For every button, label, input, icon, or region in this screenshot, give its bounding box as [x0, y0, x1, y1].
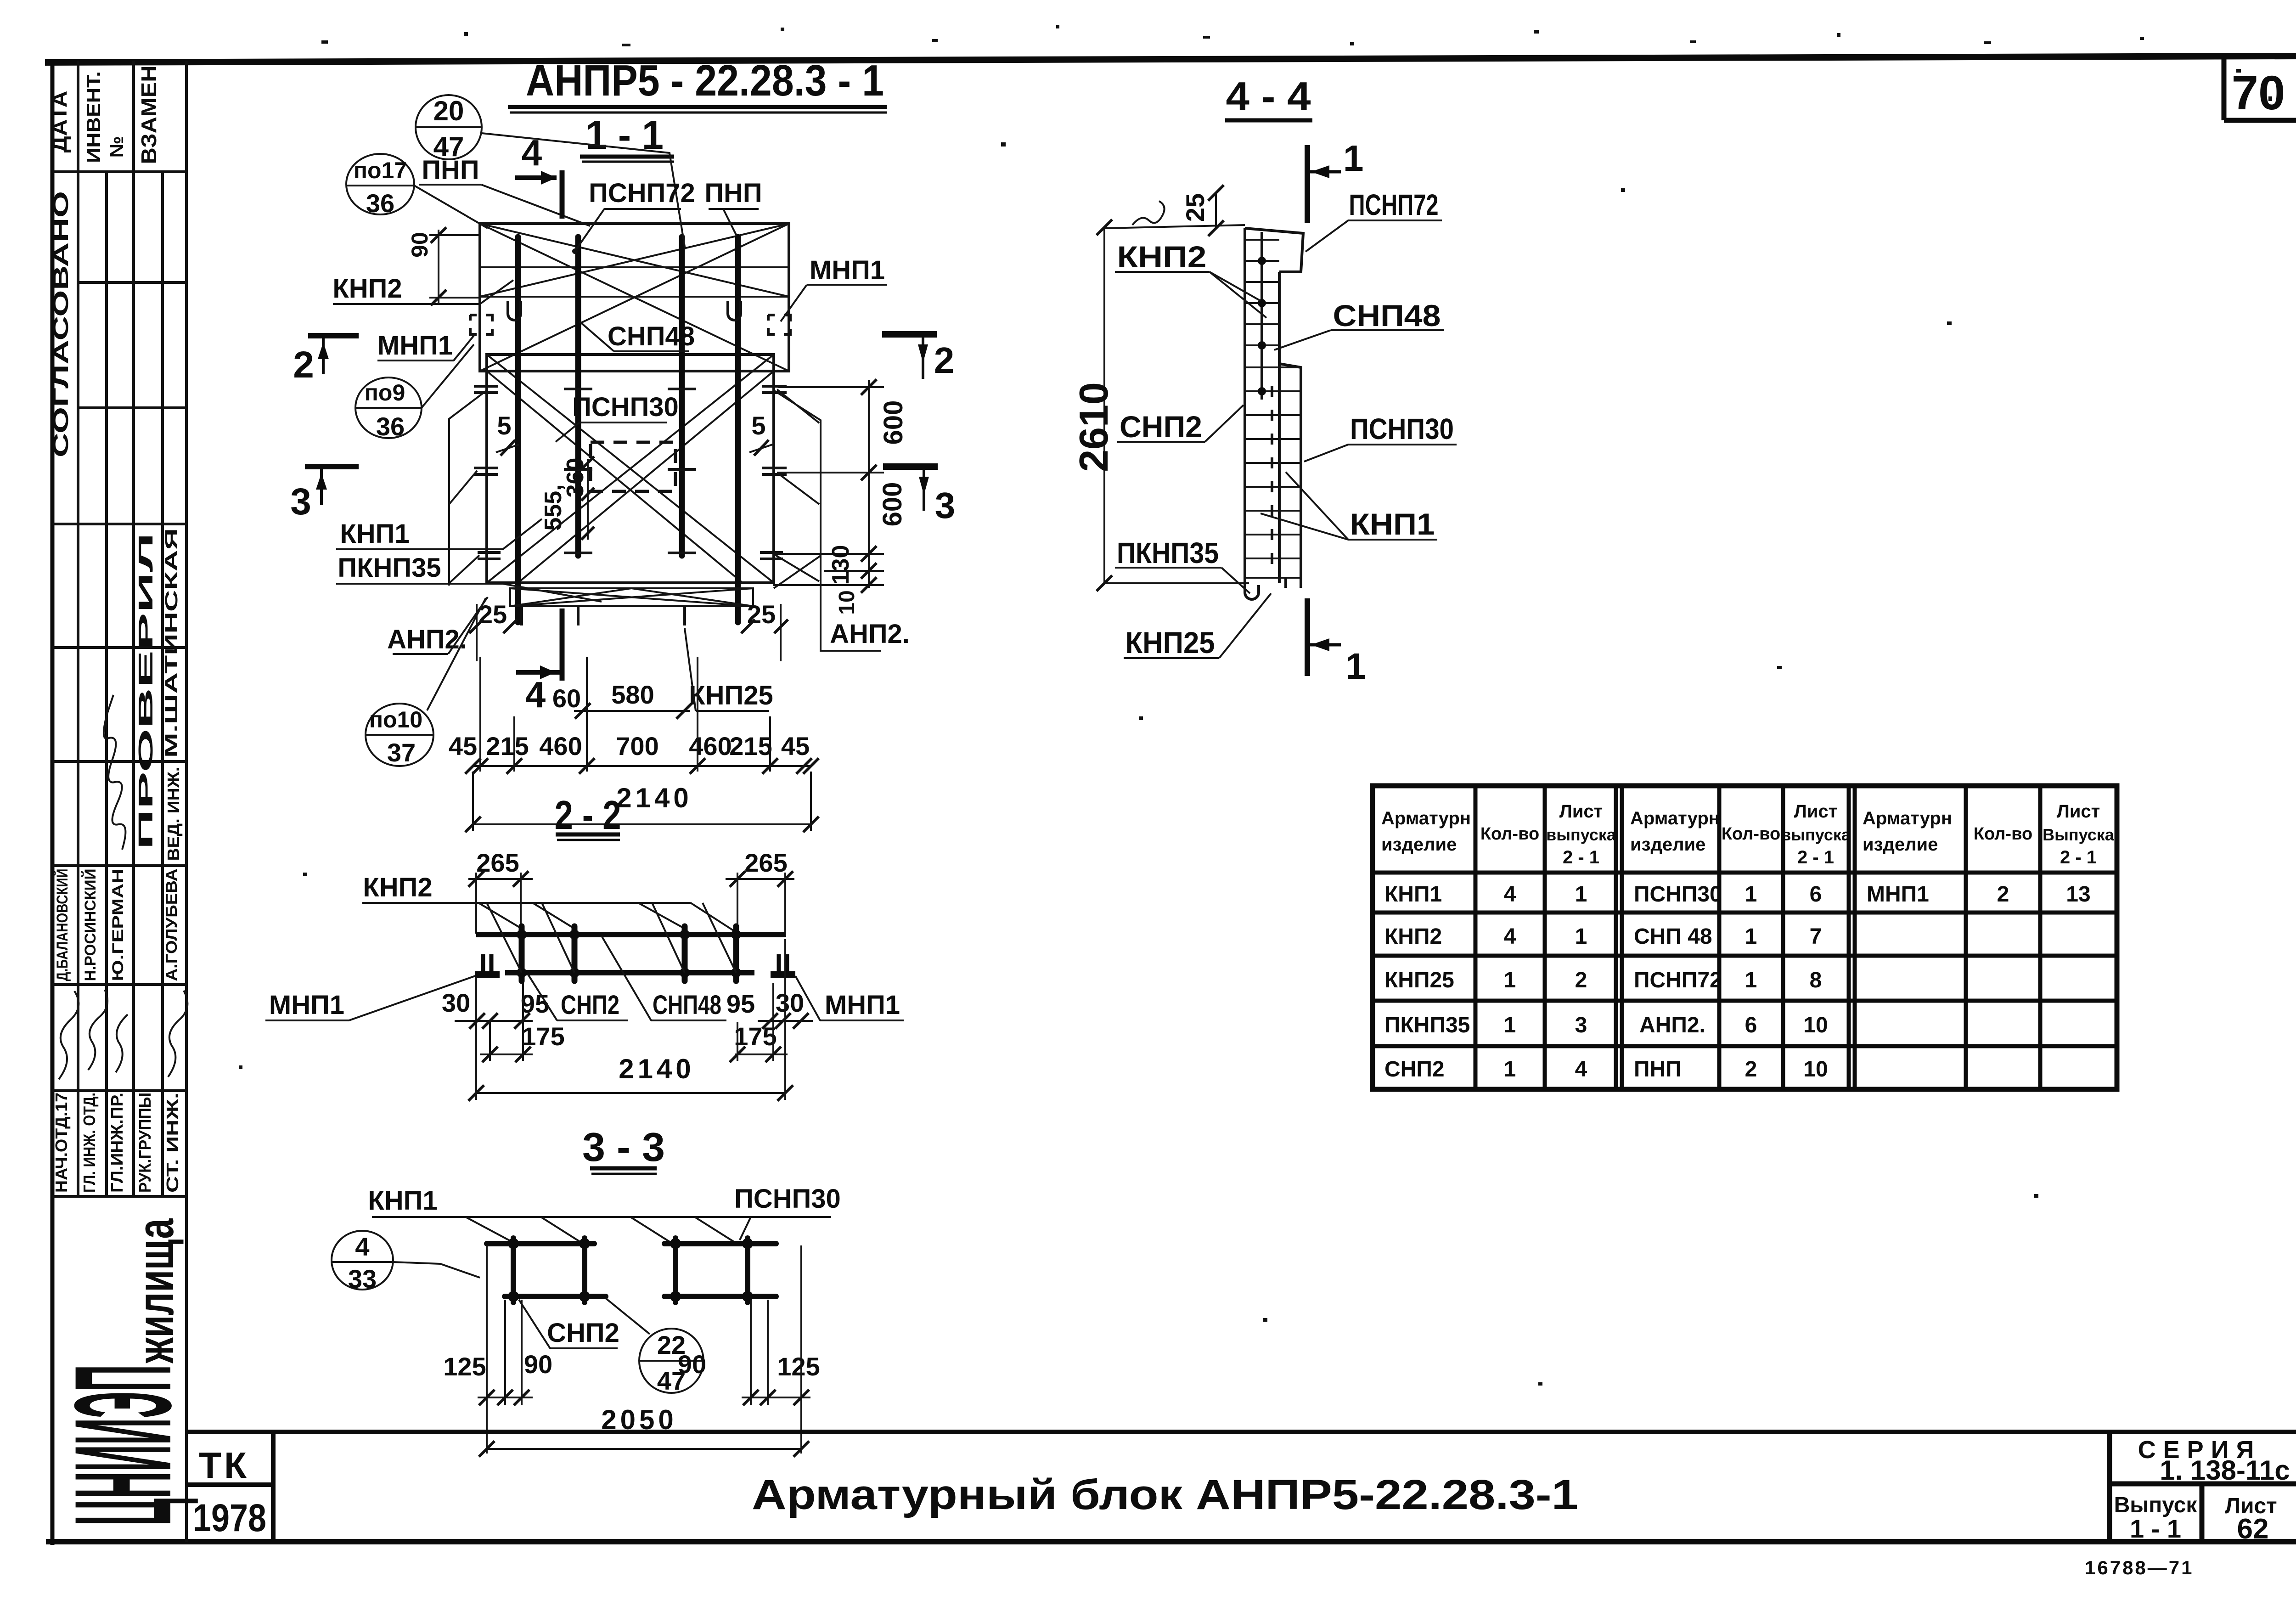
section mark 2 right: [882, 334, 954, 381]
2-2 dim 265 right: [726, 848, 794, 937]
svg-text:2: 2: [1575, 968, 1587, 992]
svg-text:ИНВЕНТ.: ИНВЕНТ.: [83, 71, 104, 163]
svg-text:360: 360: [562, 458, 589, 498]
svg-text:АНП2.: АНП2.: [1639, 1013, 1705, 1037]
svg-text:СНП2: СНП2: [561, 990, 619, 1020]
svg-text:1. 138-11с: 1. 138-11с: [2160, 1455, 2290, 1486]
2-2 studs: [522, 926, 736, 981]
view 1-1 left wing outline: [449, 390, 487, 586]
svg-text:ВЗАМЕН: ВЗАМЕН: [137, 66, 161, 164]
svg-text:АНПР5 - 22.28.3 - 1: АНПР5 - 22.28.3 - 1: [526, 56, 884, 105]
svg-text:90: 90: [678, 1350, 706, 1379]
4-4 ladder rungs lower: [1245, 367, 1301, 578]
svg-text:СНП2: СНП2: [547, 1318, 619, 1348]
4-4 squiggle: [1132, 201, 1165, 225]
dim 5 left: [496, 411, 519, 456]
svg-text:изделие: изделие: [1863, 834, 1938, 855]
view 1-1 left bar-end marks: [474, 386, 501, 559]
svg-text:по10: по10: [369, 707, 422, 732]
label ПНП top-left: [419, 155, 590, 226]
svg-text:2610: 2610: [1071, 382, 1116, 472]
label ПСНП72: [572, 178, 695, 254]
svg-text:2: 2: [934, 340, 955, 381]
callout 20/47: [416, 95, 685, 249]
view 1-1 lower diagonals: [487, 355, 774, 583]
label КНП25: [685, 628, 773, 711]
dim row 45/215/460/700/460/215/45: [449, 657, 819, 774]
2-2 label МНП1 left: [265, 976, 475, 1020]
4-4 bottom hook: [1245, 583, 1259, 599]
svg-text:45: 45: [449, 732, 477, 761]
sidebar signature 5: [168, 991, 187, 1077]
label КНП2: [332, 274, 513, 304]
svg-text:125: 125: [443, 1352, 486, 1381]
svg-text:КНП25: КНП25: [1384, 968, 1454, 992]
svg-text:1: 1: [1575, 882, 1587, 907]
svg-text:МНП1: МНП1: [269, 990, 344, 1020]
svg-text:460: 460: [689, 732, 732, 761]
page number box 70: [2224, 57, 2296, 120]
svg-text:ПКНП35: ПКНП35: [338, 553, 441, 583]
svg-text:215: 215: [729, 732, 772, 761]
2-2 hatch diagonals: [487, 903, 736, 973]
svg-text:4: 4: [525, 674, 546, 715]
svg-text:ПСНП72: ПСНП72: [1349, 188, 1439, 221]
svg-text:33: 33: [348, 1264, 377, 1293]
svg-text:Арматурн: Арматурн: [1630, 808, 1720, 828]
label МНП1 left: [377, 331, 475, 361]
3-3 callout 22/47: [606, 1298, 703, 1395]
view 1-1 right hook U: [728, 301, 741, 320]
dim 90 top-left: [407, 227, 481, 305]
view 1-1 lower rect: [487, 355, 774, 583]
dim 25 right: [741, 600, 788, 661]
svg-text:СНП48: СНП48: [653, 990, 721, 1020]
svg-text:10: 10: [1803, 1057, 1828, 1082]
svg-text:МНП1: МНП1: [1867, 882, 1929, 907]
spec table rows group3: [1867, 882, 2091, 907]
svg-text:Н.РОСИНСКИЙ: Н.РОСИНСКИЙ: [81, 869, 99, 981]
4-4 panel verticals: [1244, 228, 1246, 583]
svg-text:Д.БАЛАНОВСКИЙ: Д.БАЛАНОВСКИЙ: [53, 869, 71, 981]
4-4 label СНП48: [1274, 299, 1444, 350]
svg-text:1: 1: [1345, 646, 1366, 687]
sidebar signature 2: [88, 990, 107, 1070]
dim 555,360: [540, 456, 594, 540]
bottom title bar top line: [186, 1430, 2296, 1434]
spec table headers group1: [1381, 801, 1616, 868]
sidebar grid verticals: [78, 61, 186, 1542]
svg-text:АНП2.: АНП2.: [830, 619, 910, 649]
label АНП2. left: [387, 597, 488, 654]
svg-text:1: 1: [1745, 924, 1757, 949]
dim 5 right: [749, 411, 772, 456]
svg-text:1: 1: [1504, 1057, 1516, 1082]
2-2 label МНП1 right: [795, 976, 904, 1020]
svg-text:2 - 2: 2 - 2: [555, 792, 621, 838]
svg-text:А.ГОЛУБЕВА: А.ГОЛУБЕВА: [163, 869, 180, 981]
4-4 middle flag: [1279, 364, 1301, 583]
view 1-1 upper diagonals: [480, 224, 789, 371]
4-4 label СНП2: [1117, 405, 1244, 444]
2-2 bottom bar: [505, 970, 754, 975]
svg-text:460: 460: [539, 732, 582, 761]
2-2 label КНП2: [362, 873, 691, 903]
view 1-1 right bar-end marks: [760, 386, 787, 559]
svg-text:СНП2: СНП2: [1384, 1057, 1445, 1082]
svg-text:СТ. ИНЖ.: СТ. ИНЖ.: [163, 1093, 182, 1193]
svg-text:25: 25: [1181, 193, 1210, 222]
2-2 top bar: [476, 932, 785, 937]
svg-text:13: 13: [2066, 882, 2090, 907]
2-2 label СНП2: [528, 975, 628, 1020]
svg-text:ГЛ.ИНЖ.ПР.: ГЛ.ИНЖ.ПР.: [107, 1093, 126, 1193]
section mark 3 right: [883, 467, 955, 526]
svg-text:выпуска: выпуска: [1781, 825, 1851, 844]
svg-text:4: 4: [1504, 882, 1516, 907]
svg-text:1: 1: [1343, 138, 1364, 179]
2-2 stud blobs: [517, 930, 741, 978]
svg-text:Арматурный блок АНПР5-22.28.: Арматурный блок АНПР5-22.28.3-1: [752, 1471, 1578, 1518]
svg-text:6: 6: [1745, 1013, 1757, 1037]
svg-text:РУК.ГРУППЫ: РУК.ГРУППЫ: [135, 1093, 154, 1193]
svg-text:90: 90: [524, 1350, 552, 1379]
view 1-1 upper rect inner lines: [480, 266, 789, 268]
2-2 dim 175 left: [480, 983, 565, 1062]
4-4 label ПСНП30: [1304, 412, 1457, 462]
svg-text:КНП2: КНП2: [363, 873, 432, 902]
view 1-1 right wing outline: [774, 390, 881, 651]
svg-text:600: 600: [878, 482, 907, 527]
svg-text:по9: по9: [365, 380, 405, 406]
svg-text:ДАТА: ДАТА: [47, 91, 71, 153]
svg-text:выпуска: выпуска: [1546, 825, 1616, 844]
spec table headers group2: [1630, 801, 1851, 868]
svg-text:265: 265: [744, 848, 787, 877]
svg-text:1978: 1978: [193, 1496, 266, 1539]
svg-text:4: 4: [522, 132, 542, 173]
section mark 4 top: [515, 132, 562, 219]
svg-text:ПРОВЕРИЛ: ПРОВЕРИЛ: [135, 533, 157, 850]
svg-text:ПНП: ПНП: [1634, 1057, 1682, 1082]
section mark 4 bottom: [516, 608, 562, 715]
svg-text:45: 45: [781, 732, 810, 761]
view 1-1 rebar verticals: [518, 237, 738, 622]
2-2 dim 175 right: [730, 983, 788, 1062]
4-4 dim 2610: [1071, 220, 1249, 591]
view 1-1 bottom band: [510, 588, 753, 606]
label КНП1 left: [336, 519, 542, 549]
svg-text:СНП 48: СНП 48: [1634, 924, 1712, 949]
svg-text:10: 10: [1803, 1013, 1828, 1037]
svg-text:4 - 4: 4 - 4: [1226, 73, 1311, 119]
svg-text:2140: 2140: [619, 1054, 694, 1084]
svg-text:215: 215: [486, 732, 529, 761]
4-4 mark 1 top: [1307, 138, 1364, 223]
svg-text:600: 600: [878, 400, 908, 445]
svg-text:ПКНП35: ПКНП35: [1384, 1013, 1470, 1037]
view 1-1 upper rect: [480, 224, 789, 371]
section mark 3 left: [290, 467, 359, 523]
svg-text:СНП2: СНП2: [1120, 410, 1202, 444]
svg-text:4: 4: [1504, 924, 1516, 949]
svg-text:95: 95: [726, 989, 755, 1018]
svg-text:36: 36: [366, 189, 394, 218]
2-2 left МНП1 symbol: [475, 954, 500, 975]
label ПКНП35 left: [336, 553, 602, 602]
svg-text:1: 1: [1745, 968, 1757, 992]
svg-text:5: 5: [497, 411, 511, 440]
svg-text:580: 580: [611, 680, 654, 709]
svg-text:НАЧ.ОТД.17: НАЧ.ОТД.17: [52, 1093, 71, 1193]
svg-text:КНП2: КНП2: [332, 274, 402, 304]
svg-text:Ю.ГЕРМАН: Ю.ГЕРМАН: [109, 869, 127, 981]
label СНП48: [580, 321, 695, 351]
view 1-1 left hook U: [508, 301, 521, 320]
section mark 2 left: [293, 336, 359, 386]
svg-text:2 - 1: 2 - 1: [2060, 847, 2097, 868]
callout по10/37: [366, 598, 486, 767]
2-2 right МНП1 symbol: [771, 954, 795, 975]
svg-text:3 - 3: 3 - 3: [582, 1124, 665, 1170]
ТК box: [186, 1432, 273, 1542]
svg-text:16788—71: 16788—71: [2085, 1557, 2194, 1578]
page frame left border: [51, 60, 55, 1545]
svg-text:Арматурн: Арматурн: [1863, 808, 1952, 828]
view 1-1 right bracket МНП1 dashed: [768, 315, 790, 334]
svg-text:1: 1: [1504, 1013, 1516, 1037]
svg-text:СНП48: СНП48: [608, 321, 695, 351]
svg-text:ПСНП30: ПСНП30: [572, 392, 679, 422]
2-2 dim 265 left: [468, 848, 533, 934]
svg-text:КНП1: КНП1: [340, 519, 409, 549]
svg-text:7: 7: [1810, 924, 1822, 949]
3-3 top leader line: [372, 1216, 831, 1218]
page frame top border: [45, 56, 2296, 62]
svg-text:2 - 1: 2 - 1: [1797, 847, 1834, 868]
svg-text:3: 3: [290, 481, 311, 523]
svg-text:МНП1: МНП1: [377, 331, 453, 361]
svg-text:КНП25: КНП25: [689, 681, 773, 710]
4-4 mark 1 bottom: [1307, 598, 1366, 687]
right dim column 600/600/130/10: [773, 379, 908, 615]
3-3 leader diagonals: [466, 1217, 751, 1245]
svg-text:Арматурн: Арматурн: [1381, 808, 1471, 828]
sidebar signature 1: [59, 991, 79, 1079]
svg-text:Кол-во: Кол-во: [1974, 824, 2032, 844]
spec table rows group1: [1384, 882, 1587, 1082]
svg-text:4: 4: [1575, 1057, 1587, 1082]
callout по9/36: [355, 344, 474, 441]
3-3 label СНП2: [519, 1300, 619, 1348]
2-2 label СНП48: [602, 936, 726, 1020]
svg-text:Выпуска: Выпуска: [2043, 825, 2115, 844]
3-3 small dim lines: [478, 1390, 810, 1405]
svg-text:КНП2: КНП2: [1117, 240, 1207, 274]
svg-text:Лист: Лист: [1794, 801, 1838, 822]
2-2 dim 2140: [468, 939, 793, 1101]
view 1-1 bar ticks row1: [564, 389, 696, 553]
svg-text:1: 1: [1575, 924, 1587, 949]
svg-text:СОГЛАСОВАНО: СОГЛАСОВАНО: [49, 191, 73, 457]
view 1-1 left bracket МНП1 dashed: [470, 315, 492, 334]
3-3 right assembly: [664, 1238, 776, 1302]
4-4 label ПКНП35: [1115, 536, 1250, 593]
svg-text:СНП48: СНП48: [1333, 299, 1441, 332]
svg-text:175: 175: [522, 1022, 564, 1051]
svg-text:2: 2: [1997, 882, 2009, 907]
svg-text:КНП1: КНП1: [1350, 507, 1435, 541]
svg-text:КНП1: КНП1: [368, 1186, 437, 1216]
svg-text:175: 175: [734, 1022, 777, 1051]
svg-text:Лист: Лист: [1559, 801, 1603, 822]
4-4 dim 25 top: [1181, 185, 1224, 236]
view 1-1 bottom band stubs: [520, 606, 523, 625]
scan noise specks along top: [239, 25, 2272, 1386]
4-4 label КНП25: [1124, 593, 1271, 659]
svg-text:95: 95: [521, 989, 549, 1018]
sidebar grid horizontals: [52, 172, 186, 1196]
callout по17/36: [346, 154, 488, 228]
sidebar signature (проверил): [104, 695, 125, 850]
spec table grid: [1373, 786, 2117, 1089]
svg-text:по17: по17: [354, 158, 407, 183]
svg-text:ТК: ТК: [199, 1445, 249, 1486]
svg-text:70: 70: [2232, 66, 2285, 120]
svg-text:3: 3: [1575, 1013, 1587, 1037]
dim 25 left: [469, 600, 517, 661]
svg-text:1 - 1: 1 - 1: [2130, 1514, 2181, 1543]
svg-text:Кол-во: Кол-во: [1480, 824, 1539, 844]
4-4 rung cross ticks: [1271, 386, 1273, 564]
spec table headers group3: [1863, 801, 2115, 868]
svg-text:ПКНП35: ПКНП35: [1117, 536, 1219, 569]
svg-text:1: 1: [1745, 882, 1757, 907]
svg-text:ПСНП30: ПСНП30: [734, 1184, 841, 1214]
svg-text:ГЛ. ИНЖ. ОТД.: ГЛ. ИНЖ. ОТД.: [80, 1093, 99, 1193]
svg-text:Лист: Лист: [2057, 801, 2100, 822]
svg-text:Кол-во: Кол-во: [1722, 824, 1780, 844]
view 1-1 center dashed rect: [591, 442, 675, 491]
3-3 extension verticals: [487, 1245, 801, 1454]
4-4 ladder rungs upper: [1245, 240, 1279, 345]
svg-text:5: 5: [751, 411, 765, 440]
svg-text:6: 6: [1810, 882, 1822, 907]
svg-text:изделие: изделие: [1381, 834, 1457, 855]
svg-text:ПСНП30: ПСНП30: [1634, 882, 1722, 907]
svg-text:ЦНИИЭП: ЦНИИЭП: [45, 1365, 200, 1526]
4-4 inner bar: [1261, 232, 1263, 400]
spec table rows group2: [1634, 882, 1828, 1082]
svg-text:изделие: изделие: [1630, 834, 1705, 855]
4-4 label ПСНП72: [1306, 188, 1442, 252]
svg-text:2: 2: [293, 344, 314, 386]
4-4 label КНП1: [1261, 472, 1437, 541]
4-4 rung blobs: [1258, 257, 1266, 395]
page frame bottom border: [46, 1539, 2296, 1544]
svg-text:МНП1: МНП1: [810, 255, 885, 285]
svg-text:КНП2: КНП2: [1384, 924, 1442, 949]
dim 580: [574, 680, 692, 719]
label ПСНП30: [556, 392, 679, 442]
svg-text:ВЕД. ИНЖ.: ВЕД. ИНЖ.: [164, 767, 183, 861]
svg-text:36: 36: [376, 412, 405, 441]
svg-text:ПСНП72: ПСНП72: [589, 178, 695, 208]
svg-text:2: 2: [1745, 1057, 1757, 1082]
svg-text:№: №: [106, 136, 127, 158]
svg-text:жилища: жилища: [127, 1218, 184, 1363]
svg-text:ПСНП72: ПСНП72: [1634, 968, 1722, 992]
3-3 callout 4/33: [332, 1231, 480, 1293]
label АНП2. right: [830, 619, 910, 649]
svg-text:8: 8: [1810, 968, 1822, 992]
svg-text:М.ШАТИНСКАЯ: М.ШАТИНСКАЯ: [162, 528, 181, 758]
label ПНП top-right: [704, 178, 762, 236]
3-3 dim 2050: [479, 1404, 809, 1457]
sidebar signature 3: [116, 1014, 128, 1072]
svg-text:20: 20: [433, 96, 464, 126]
svg-text:АНП2.: АНП2.: [387, 625, 467, 654]
svg-text:ПСНП30: ПСНП30: [1350, 412, 1454, 445]
svg-text:ПНП: ПНП: [704, 178, 762, 208]
2-2 leader diagonals: [478, 903, 735, 931]
4-4 top head: [1245, 228, 1303, 272]
svg-text:30: 30: [442, 988, 470, 1017]
СЕРИЯ block: [2110, 1432, 2296, 1545]
svg-text:90: 90: [407, 232, 433, 258]
svg-text:КНП1: КНП1: [1384, 882, 1442, 907]
3-3 left assembly: [487, 1238, 606, 1302]
svg-text:2140: 2140: [616, 783, 692, 813]
svg-text:1: 1: [1504, 968, 1516, 992]
svg-text:47: 47: [433, 131, 464, 162]
svg-text:37: 37: [387, 738, 416, 767]
svg-text:10: 10: [835, 590, 859, 614]
label МНП1 top-right: [781, 255, 887, 321]
svg-text:62: 62: [2237, 1513, 2269, 1545]
svg-text:60: 60: [552, 684, 581, 713]
svg-text:700: 700: [616, 732, 658, 761]
2-2 small dim ticks under bars: [469, 1013, 809, 1029]
svg-text:3: 3: [935, 485, 956, 526]
4-4 label КНП2: [1115, 240, 1266, 318]
svg-text:125: 125: [777, 1352, 820, 1381]
svg-text:4: 4: [355, 1232, 369, 1261]
dim 2140 bottom: [465, 772, 819, 832]
svg-text:130: 130: [827, 545, 854, 585]
svg-text:2 - 1: 2 - 1: [1563, 847, 1599, 868]
svg-text:МНП1: МНП1: [825, 990, 900, 1020]
svg-text:КНП25: КНП25: [1125, 625, 1215, 659]
